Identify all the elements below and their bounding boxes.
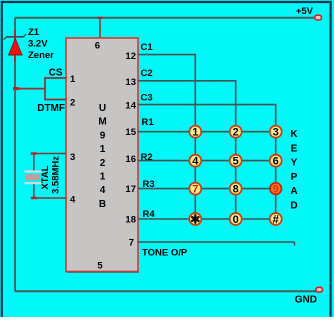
keypad button 0 <box>230 213 242 226</box>
DTMF label <box>37 103 65 114</box>
wire junction to left rail <box>13 88 45 90</box>
crystal XTAL bracket wires pins 3-4 <box>31 154 66 199</box>
pin 15 number <box>125 127 136 138</box>
svg-text:18: 18 <box>125 215 136 226</box>
svg-text:C3: C3 <box>141 93 153 104</box>
node R3 label <box>143 179 155 190</box>
op-amp U1 UM91214B IC body <box>66 38 139 272</box>
keypad button * <box>189 213 201 225</box>
svg-text:E: E <box>291 143 298 154</box>
svg-text:3.2V: 3.2V <box>28 38 48 49</box>
GND rail wire <box>15 290 317 292</box>
svg-text:4: 4 <box>192 156 199 168</box>
keypad button 2 <box>230 126 242 139</box>
keypad button 7 <box>189 183 201 196</box>
svg-text:1: 1 <box>70 74 76 85</box>
svg-text:1: 1 <box>192 127 198 139</box>
svg-text:1: 1 <box>100 172 106 183</box>
svg-text:15: 15 <box>125 127 136 138</box>
svg-text:XTAL: XTAL <box>40 165 51 189</box>
node R4 label <box>143 209 156 220</box>
pin 7 number <box>129 238 134 249</box>
svg-text:13: 13 <box>125 77 136 88</box>
svg-text:4: 4 <box>70 195 76 206</box>
svg-text:7: 7 <box>129 238 134 249</box>
keypad button 8 <box>230 183 242 196</box>
+5V label <box>296 6 314 17</box>
svg-text:3: 3 <box>70 152 75 163</box>
wire R3 (pin 17 keypad row 3) <box>138 188 276 190</box>
svg-text:Z1: Z1 <box>28 27 40 38</box>
svg-text:U: U <box>99 103 106 114</box>
svg-text:2: 2 <box>100 158 106 169</box>
keypad button # <box>270 213 282 227</box>
svg-text:TONE O/P: TONE O/P <box>142 248 188 259</box>
pin 18 number <box>125 215 136 226</box>
U1 part number label UM91214B <box>98 103 106 210</box>
wire TONE O/P (pin 7 output) <box>138 242 295 246</box>
svg-text:9: 9 <box>273 184 279 196</box>
node C1 label <box>141 42 154 53</box>
keypad button 3 <box>270 126 282 139</box>
zener diode Z1 <box>4 34 26 55</box>
node TONE O/P label <box>142 248 188 259</box>
svg-text:B: B <box>99 199 106 210</box>
wire keypad column 2 <box>235 132 237 219</box>
crystal X1 symbol <box>25 172 42 184</box>
svg-text:2: 2 <box>70 98 75 109</box>
pin 16 number <box>125 154 136 165</box>
pin 14 number <box>125 101 136 112</box>
pin 17 number <box>125 184 136 195</box>
svg-text:Zener: Zener <box>28 50 54 61</box>
CS label <box>49 68 63 79</box>
wire keypad column 1 <box>194 132 196 219</box>
pin 5 number <box>97 261 103 272</box>
+5V terminal <box>315 15 322 20</box>
svg-text:3.58MHz: 3.58MHz <box>51 156 62 194</box>
svg-text:16: 16 <box>125 154 136 165</box>
svg-text:A: A <box>290 186 297 197</box>
svg-text:3: 3 <box>273 127 279 139</box>
svg-text:R1: R1 <box>142 117 155 128</box>
svg-text:1: 1 <box>100 144 106 155</box>
svg-text:R3: R3 <box>143 179 155 190</box>
svg-text:8: 8 <box>233 184 239 196</box>
KEYPAD label <box>290 129 298 212</box>
svg-text:#: # <box>272 215 279 227</box>
node C3 label <box>141 93 153 104</box>
XTAL label <box>40 156 62 194</box>
svg-text:R4: R4 <box>143 209 156 220</box>
svg-text:9: 9 <box>100 130 106 141</box>
svg-text:0: 0 <box>233 214 239 226</box>
wire C1 (pin 12 to keypad column 1) <box>138 55 195 132</box>
GND label <box>295 295 317 306</box>
wire pin 6 to +5V rail <box>97 18 103 39</box>
wire C3 (pin 14 to keypad column 3) <box>138 105 276 132</box>
wire C2 (pin 13 to keypad column 2) <box>138 81 236 132</box>
svg-text:C1: C1 <box>141 42 154 53</box>
wire keypad column 3 <box>275 132 277 219</box>
svg-text:Y: Y <box>291 158 298 169</box>
svg-text:C2: C2 <box>141 68 153 79</box>
node R2 label <box>141 152 153 163</box>
svg-text:12: 12 <box>125 51 136 62</box>
pin 4 number <box>70 195 76 206</box>
svg-text:2: 2 <box>233 127 239 139</box>
svg-text:5: 5 <box>233 156 239 168</box>
+5V supply rail wire <box>15 17 315 19</box>
pin 6 number <box>95 41 100 52</box>
node R1 label <box>142 117 155 128</box>
Z1 value label <box>28 27 54 61</box>
svg-text:7: 7 <box>192 184 198 196</box>
wire R2 (pin 16 keypad row 2) <box>138 160 276 162</box>
wire R1 (pin 15 keypad row 1) <box>138 131 276 133</box>
svg-text:+5V: +5V <box>296 6 314 17</box>
left supply wire (x=15 from +5V rail to GND rail) <box>14 18 16 292</box>
svg-text:6: 6 <box>95 41 100 52</box>
pin 3 number <box>70 152 75 163</box>
svg-text:5: 5 <box>97 261 103 272</box>
pin 13 number <box>125 77 136 88</box>
svg-text:4: 4 <box>100 185 106 196</box>
svg-text:CS: CS <box>49 68 63 79</box>
svg-text:14: 14 <box>125 101 136 112</box>
svg-text:DTMF: DTMF <box>37 103 65 114</box>
keypad button 5 <box>230 155 242 168</box>
GND terminal <box>316 287 323 292</box>
pin 1 number <box>70 74 76 85</box>
svg-text:17: 17 <box>125 184 136 195</box>
wire CS/DTMF loop pins 1-2 <box>45 78 66 100</box>
keypad button 1 <box>189 126 201 139</box>
keypad button 6 <box>270 155 282 168</box>
svg-text:K: K <box>290 129 298 140</box>
svg-text:M: M <box>98 117 106 128</box>
svg-text:6: 6 <box>273 156 279 168</box>
svg-text:D: D <box>290 201 297 212</box>
keypad button 9 <box>270 183 282 196</box>
svg-text:R2: R2 <box>141 152 153 163</box>
svg-text:P: P <box>291 172 298 183</box>
wire R4 (pin 18 keypad row 4) <box>138 218 276 220</box>
pin 2 number <box>70 98 75 109</box>
svg-text:GND: GND <box>295 295 317 306</box>
keypad button 4 <box>189 155 201 168</box>
pin 12 number <box>125 51 136 62</box>
node C2 label <box>141 68 153 79</box>
